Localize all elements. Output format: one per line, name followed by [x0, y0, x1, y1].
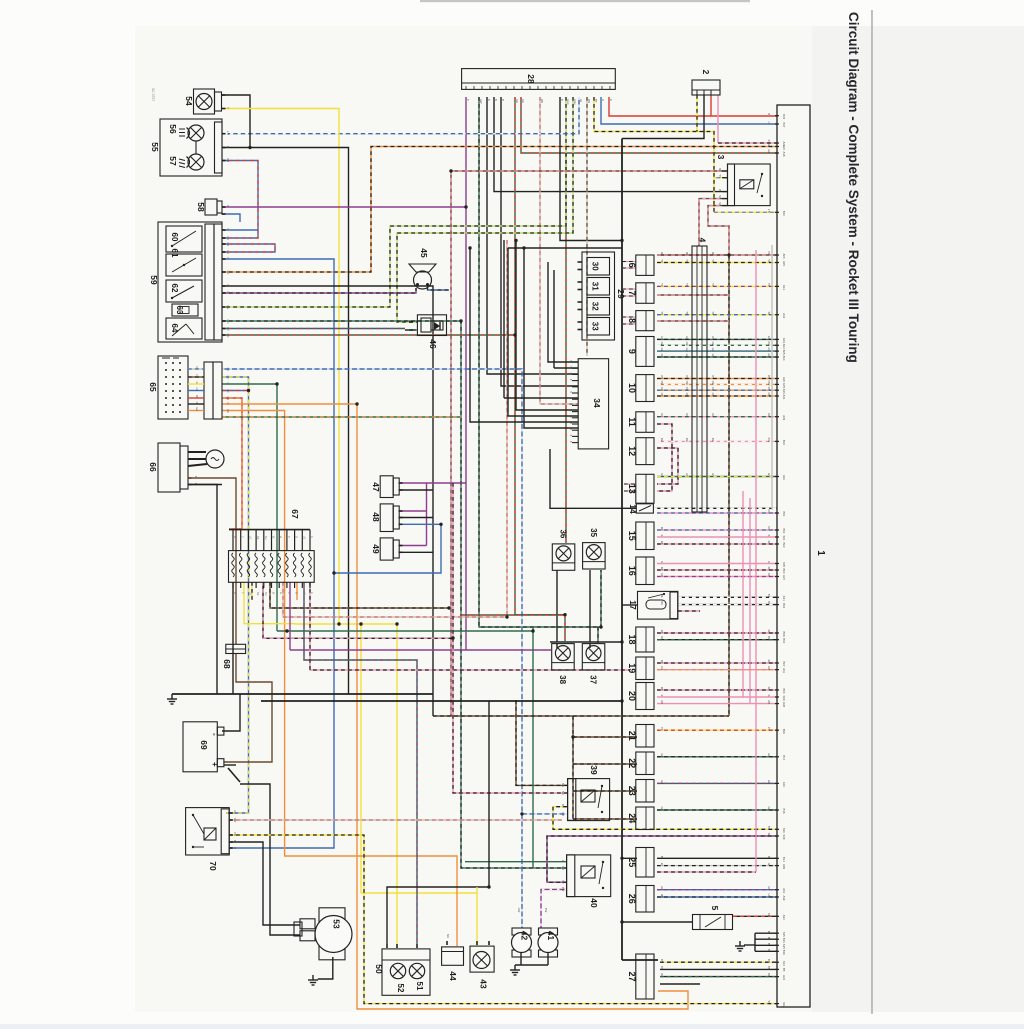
- wire NK 23: [573, 790, 637, 792]
- svg-text:39: 39: [589, 765, 599, 775]
- wire stub 13b: [624, 490, 636, 492]
- svg-text:PW: PW: [544, 908, 548, 913]
- ignition switch 3: [728, 164, 771, 206]
- svg-text:A22: A22: [782, 145, 786, 150]
- wire O main: [222, 404, 688, 1009]
- sensor 42: [512, 928, 532, 957]
- page edge line: [871, 10, 873, 1014]
- svg-text:B: B: [767, 931, 771, 933]
- wire stub 8b: [622, 323, 636, 325]
- svg-text:22: 22: [627, 758, 637, 768]
- svg-text:S23: S23: [782, 961, 786, 966]
- lamp 38: [552, 644, 575, 670]
- svg-text:15: 15: [627, 531, 637, 541]
- junction: [620, 920, 623, 923]
- wire: [188, 403, 204, 405]
- wire B 59: [222, 286, 433, 716]
- svg-text:KB: KB: [767, 630, 771, 634]
- junction: [620, 857, 623, 860]
- wire GK 22: [657, 756, 777, 758]
- wire YN: [229, 835, 777, 1004]
- svg-text:BY: BY: [660, 959, 664, 963]
- wire KP 16: [657, 576, 777, 578]
- fuse 68: [226, 644, 246, 653]
- svg-text:A02: A02: [782, 344, 786, 349]
- svg-text:A04: A04: [782, 356, 786, 361]
- svg-text:UY: UY: [195, 374, 198, 378]
- wire K 15: [657, 536, 777, 538]
- wire NK 22: [573, 763, 637, 765]
- svg-text:GY: GY: [660, 473, 664, 477]
- switch 61 symbol: [172, 258, 196, 272]
- svg-text:NK: NK: [561, 783, 565, 787]
- svg-text:GW: GW: [711, 342, 715, 347]
- svg-text:BY: BY: [594, 99, 598, 103]
- wire P 47: [399, 482, 427, 484]
- svg-text:KB: KB: [660, 660, 664, 664]
- svg-text:A28: A28: [782, 702, 786, 707]
- svg-text:51: 51: [415, 982, 424, 991]
- svg-text:19: 19: [627, 663, 637, 673]
- svg-text:B: B: [560, 99, 564, 101]
- wire BG 18: [657, 639, 777, 641]
- wire GU 9: [657, 350, 777, 352]
- svg-text:NK: NK: [718, 202, 722, 206]
- svg-text:A21: A21: [782, 395, 786, 400]
- svg-text:63: 63: [175, 306, 184, 315]
- svg-text:GO: GO: [195, 407, 198, 411]
- svg-text:U: U: [226, 258, 230, 260]
- junction: [620, 640, 623, 643]
- svg-text:KB: KB: [660, 567, 664, 571]
- svg-text:43: 43: [479, 979, 489, 989]
- svg-text:GY: GY: [685, 473, 689, 477]
- svg-text:B: B: [767, 856, 771, 858]
- svg-text:G: G: [226, 383, 229, 385]
- wire B 34 c: [504, 397, 578, 399]
- wire W 25: [657, 865, 777, 867]
- svg-text:NK: NK: [256, 592, 259, 596]
- wire W 67: [283, 582, 507, 617]
- svg-text:14: 14: [628, 504, 638, 514]
- svg-text:B06: B06: [782, 689, 786, 694]
- svg-text:BK: BK: [767, 601, 771, 605]
- svg-text:YS: YS: [767, 1000, 771, 1004]
- wire KB 25: [657, 871, 756, 873]
- svg-text:B: B: [767, 937, 771, 939]
- wire B 34-14: [550, 449, 636, 508]
- svg-text:UB: UB: [660, 894, 664, 898]
- svg-text:S01: S01: [782, 536, 786, 541]
- wire BK 17: [678, 596, 777, 598]
- svg-text:ON: ON: [660, 375, 664, 379]
- svg-text:NK: NK: [767, 252, 771, 256]
- svg-text:GB: GB: [561, 866, 565, 870]
- junction: [487, 885, 490, 888]
- switch 64 symbol: [172, 324, 186, 336]
- wire Y h: [339, 623, 397, 625]
- junction: [468, 246, 471, 249]
- wire KB 15: [657, 543, 777, 545]
- svg-text:B07: B07: [782, 662, 786, 667]
- wire ground bus: [172, 693, 433, 695]
- wire P horn: [222, 288, 416, 293]
- svg-text:B18: B18: [782, 809, 786, 814]
- svg-text:B02: B02: [782, 440, 786, 445]
- svg-text:GY: GY: [711, 473, 715, 477]
- svg-text:16: 16: [627, 566, 637, 576]
- svg-text:BK: BK: [660, 594, 664, 598]
- svg-text:53: 53: [332, 919, 342, 929]
- svg-text:B: B: [226, 94, 230, 96]
- junction: [355, 402, 358, 405]
- svg-text:26: 26: [627, 894, 637, 904]
- fuse box 65: [158, 356, 222, 419]
- svg-text:B19: B19: [782, 950, 786, 955]
- pins 59: [222, 229, 226, 231]
- svg-text:NK: NK: [660, 252, 664, 256]
- wire: [188, 376, 204, 378]
- svg-text:52: 52: [396, 984, 405, 993]
- connector 16: [636, 557, 654, 585]
- relay 39: [561, 779, 610, 821]
- svg-text:LU: LU: [579, 99, 583, 102]
- wire B 49: [399, 551, 433, 553]
- starter relay 70: [186, 808, 237, 855]
- svg-text:KW: KW: [685, 438, 689, 443]
- wire NK vertical: [450, 171, 452, 716]
- connector 12: [636, 438, 654, 465]
- wire starter: [240, 784, 300, 935]
- wire B 38: [556, 643, 558, 648]
- wire K 20: [743, 696, 777, 698]
- headlamp unit 55: [160, 119, 230, 176]
- svg-text:KB: KB: [660, 541, 664, 545]
- svg-text:KB: KB: [767, 567, 771, 571]
- gauge 31: [587, 278, 610, 296]
- wire KB 11: [657, 424, 672, 491]
- svg-text:A03: A03: [782, 338, 786, 343]
- wire B from 2: [622, 95, 704, 139]
- wire: [188, 477, 222, 479]
- svg-text:OK: OK: [711, 393, 715, 397]
- switch 5: [693, 915, 733, 930]
- svg-text:UY: UY: [233, 810, 237, 814]
- wire GP: [222, 328, 405, 330]
- svg-text:KW: KW: [767, 438, 771, 443]
- svg-text:GK: GK: [660, 354, 664, 358]
- junction: [248, 146, 251, 149]
- svg-text:33: 33: [591, 322, 600, 331]
- junction: [620, 239, 623, 242]
- svg-text:BG: BG: [660, 973, 664, 977]
- svg-text:36: 36: [559, 529, 568, 538]
- wire NK b: [708, 206, 729, 255]
- svg-text:48: 48: [371, 512, 381, 522]
- pin labels 28: [466, 99, 613, 104]
- svg-text:GK: GK: [767, 753, 771, 757]
- wire YU 8: [657, 314, 777, 316]
- svg-text:WR: WR: [540, 99, 544, 103]
- svg-text:Circuit Diagram - Complete Sys: Circuit Diagram - Complete System - Rock…: [846, 12, 861, 363]
- ground: [510, 965, 520, 975]
- svg-text:ON: ON: [711, 375, 715, 379]
- junction: [571, 735, 574, 738]
- wire UY: [222, 377, 249, 813]
- wire GW: [479, 97, 601, 627]
- svg-text:GU: GU: [660, 348, 664, 352]
- wire KW 12: [657, 440, 777, 442]
- svg-text:B03: B03: [782, 569, 786, 574]
- wire NK 7: [657, 294, 729, 296]
- switch unit 59: [158, 222, 222, 342]
- svg-text:9: 9: [627, 349, 637, 354]
- connector bar 4: [692, 246, 707, 512]
- svg-text:GW: GW: [767, 341, 771, 346]
- junction: [337, 622, 340, 625]
- svg-text:LGU: LGU: [573, 99, 577, 104]
- wire KB 17: [678, 610, 700, 612]
- svg-text:A29: A29: [782, 415, 786, 420]
- svg-text:B04: B04: [782, 638, 786, 643]
- svg-text:21: 21: [627, 731, 637, 741]
- wire K v756: [755, 250, 757, 872]
- junction: [451, 636, 454, 639]
- svg-text:B: B: [226, 285, 230, 287]
- svg-text:U: U: [226, 229, 230, 231]
- wire B 28-34 b: [501, 97, 578, 386]
- svg-text:50: 50: [374, 964, 384, 974]
- battery 69: [183, 722, 224, 772]
- wire NK 6b: [657, 254, 729, 256]
- svg-text:A27: A27: [782, 575, 786, 580]
- svg-text:B03: B03: [782, 543, 786, 548]
- wire GW 9: [657, 344, 777, 346]
- sensor 41: [538, 928, 558, 957]
- wire UB 39: [522, 813, 567, 815]
- svg-text:O: O: [295, 536, 298, 538]
- wire YK 6: [657, 262, 777, 264]
- svg-text:GN: GN: [767, 336, 771, 340]
- wire SO: [222, 147, 777, 273]
- svg-text:UP: UP: [767, 886, 771, 890]
- wire G v: [532, 627, 534, 868]
- svg-text:O: O: [226, 403, 229, 405]
- wire: [188, 410, 204, 412]
- wire KP to 39: [453, 638, 567, 793]
- svg-text:YR: YR: [660, 727, 664, 731]
- svg-text:37: 37: [589, 675, 598, 684]
- junction: [514, 239, 517, 242]
- svg-text:LGN: LGN: [566, 99, 570, 104]
- svg-text:A06: A06: [782, 254, 786, 259]
- svg-text:BN: BN: [767, 966, 771, 970]
- wire SR 5: [733, 915, 777, 917]
- wire gnd 42: [520, 953, 522, 965]
- wire B 36: [556, 570, 558, 642]
- wire B 34 d: [516, 241, 578, 411]
- svg-text:GU: GU: [711, 348, 715, 352]
- lamp 43: [470, 941, 494, 972]
- junction: [247, 389, 250, 392]
- ground: [735, 941, 745, 951]
- wire B 34 f: [470, 248, 578, 422]
- svg-text:B09: B09: [782, 729, 786, 734]
- svg-text:GK: GK: [685, 354, 689, 358]
- svg-text:GN: GN: [660, 336, 664, 340]
- wire WR v: [506, 240, 508, 617]
- wire KB 20: [657, 689, 777, 691]
- svg-text:LU: LU: [226, 251, 230, 254]
- svg-text:UW: UW: [517, 908, 521, 913]
- wire B v 34: [503, 240, 505, 398]
- svg-text:LU: LU: [226, 237, 230, 240]
- svg-text:OU: OU: [685, 387, 689, 391]
- svg-text:B: B: [767, 943, 771, 945]
- svg-text:R: R: [767, 113, 771, 115]
- svg-text:NK: NK: [718, 195, 722, 199]
- wire gnd h: [515, 964, 548, 966]
- wire B gnd1: [755, 932, 777, 934]
- wire B 25 left: [622, 857, 637, 859]
- svg-text:UY: UY: [226, 376, 229, 380]
- wire BG 27: [660, 976, 777, 978]
- wire ON 10: [657, 378, 777, 380]
- wire UR 65: [222, 390, 249, 392]
- svg-text:LU: LU: [226, 131, 230, 135]
- svg-text:NK: NK: [718, 168, 722, 172]
- svg-text:YP: YP: [711, 283, 715, 287]
- svg-text:A20: A20: [782, 377, 786, 382]
- svg-text:LG: LG: [302, 536, 305, 539]
- svg-text:B01: B01: [782, 512, 786, 517]
- wire OU 10: [657, 389, 777, 391]
- svg-text:GW: GW: [685, 342, 689, 347]
- wire B h248: [508, 247, 622, 249]
- svg-text:+: +: [210, 762, 219, 767]
- svg-text:56: 56: [168, 124, 178, 134]
- svg-text:UB: UB: [561, 812, 565, 816]
- svg-text:A11: A11: [782, 668, 786, 673]
- lamp 36: [552, 544, 575, 570]
- svg-text:31: 31: [591, 282, 600, 291]
- wire U main: [222, 259, 334, 848]
- svg-text:B08: B08: [782, 632, 786, 637]
- svg-text:8: 8: [627, 318, 637, 323]
- wire B lamps: [550, 641, 622, 643]
- svg-text:B: B: [226, 146, 230, 148]
- wire R from 2: [710, 95, 712, 116]
- wire gnd stub: [744, 944, 755, 946]
- wire GB 24: [657, 809, 777, 811]
- svg-text:B26: B26: [782, 114, 786, 119]
- wire NK bus: [433, 715, 729, 717]
- wire NK v573: [572, 716, 574, 819]
- wire KY: [718, 142, 777, 144]
- wire N 66: [222, 478, 236, 644]
- connector 2: [692, 80, 720, 95]
- svg-text:OU: OU: [711, 387, 715, 391]
- connector 13: [636, 474, 654, 503]
- svg-text:S09: S09: [782, 696, 786, 701]
- wire B 31-34: [553, 270, 555, 368]
- svg-text:NK: NK: [256, 536, 259, 540]
- wire GN: [222, 321, 566, 868]
- junction: [464, 205, 467, 208]
- svg-text:UP: UP: [660, 886, 664, 890]
- svg-text:-: -: [210, 733, 219, 736]
- wire WR long: [229, 819, 562, 821]
- svg-text:28: 28: [526, 74, 536, 84]
- wire B gnd2: [755, 938, 777, 940]
- svg-text:KB: KB: [767, 687, 771, 691]
- wire 53 gnd: [318, 957, 333, 979]
- wire GP 23: [657, 782, 777, 784]
- svg-text:S05: S05: [782, 562, 786, 567]
- junction: [447, 606, 450, 609]
- wire B 28 to 30: [560, 97, 622, 241]
- svg-text:YK: YK: [711, 259, 715, 263]
- svg-text:UR: UR: [226, 243, 230, 247]
- junction: [275, 382, 278, 385]
- svg-text:ON: ON: [685, 375, 689, 379]
- svg-text:46: 46: [428, 339, 438, 349]
- svg-text:O: O: [295, 592, 298, 594]
- svg-text:NK: NK: [711, 252, 715, 256]
- wire B 5 left2: [622, 921, 660, 923]
- svg-text:YP: YP: [685, 283, 689, 287]
- svg-text:65: 65: [148, 382, 158, 392]
- svg-text:NU: NU: [264, 536, 267, 540]
- wire KB 19: [657, 662, 777, 664]
- svg-text:KU: KU: [767, 510, 771, 514]
- wire KB 20b: [750, 703, 777, 705]
- scan streak top: [420, 0, 750, 2]
- svg-text:SP: SP: [561, 880, 565, 884]
- svg-text:27: 27: [627, 971, 637, 981]
- svg-text:BN: BN: [660, 966, 664, 970]
- svg-text:5: 5: [710, 906, 720, 911]
- svg-text:SP: SP: [767, 833, 771, 837]
- wire GW 37: [597, 627, 599, 643]
- svg-text:GR: GR: [521, 99, 525, 103]
- connector 21: [636, 725, 654, 748]
- connector 9: [636, 337, 654, 367]
- wire P v: [426, 483, 428, 546]
- junction: [332, 571, 335, 574]
- wire B gnd3: [755, 944, 777, 946]
- svg-text:YN: YN: [233, 832, 237, 836]
- wire B 34 g: [524, 248, 578, 428]
- svg-text:24: 24: [627, 813, 637, 823]
- wire B 27: [660, 983, 700, 985]
- lamp 37: [582, 644, 605, 670]
- junction: [395, 622, 398, 625]
- svg-text:G: G: [561, 860, 565, 862]
- wire B 47: [399, 489, 433, 491]
- svg-text:B: B: [767, 949, 771, 951]
- svg-text:B16: B16: [782, 938, 786, 943]
- svg-text:7: 7: [627, 291, 637, 296]
- svg-text:A39: A39: [782, 896, 786, 901]
- svg-text:SC 3737: SC 3737: [151, 88, 155, 101]
- wire K v743: [657, 491, 743, 697]
- lamp 35: [583, 543, 606, 569]
- svg-text:OW: OW: [660, 381, 664, 386]
- wire GN 9: [657, 338, 777, 340]
- svg-text:2: 2: [701, 70, 711, 75]
- svg-text:PW: PW: [561, 887, 565, 892]
